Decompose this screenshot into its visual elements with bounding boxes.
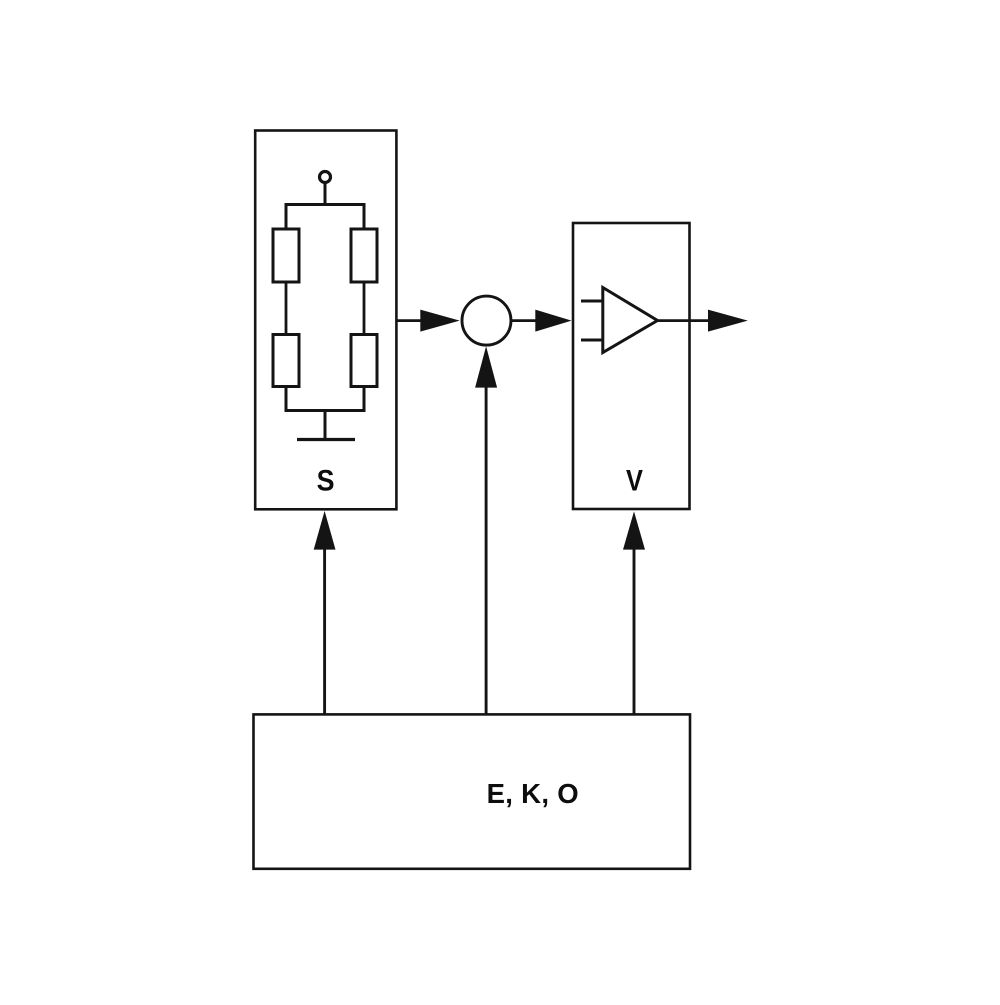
label V xyxy=(626,464,643,497)
resistor R2 xyxy=(351,229,377,282)
signal arrow summing junction to amplifier V xyxy=(512,310,572,332)
sensor block S xyxy=(255,131,396,510)
label S xyxy=(317,464,335,498)
wire terminal stem xyxy=(324,184,327,206)
signal arrow amplifier output xyxy=(658,310,748,332)
wire bridge top rail xyxy=(286,205,364,231)
control arrow E K O to summing junction xyxy=(475,346,497,714)
resistor R4 xyxy=(351,335,377,387)
wire left branch middle xyxy=(285,282,288,335)
amplifier block V xyxy=(573,223,690,509)
summing junction node xyxy=(462,296,511,345)
wire bridge bottom rail xyxy=(286,387,364,411)
wire op-amp input pin 2 xyxy=(581,339,603,342)
wire right branch middle xyxy=(363,282,366,335)
svg-text:E, K, O: E, K, O xyxy=(487,778,579,809)
resistor R3 xyxy=(273,335,299,387)
svg-text:S: S xyxy=(317,464,335,498)
svg-text:V: V xyxy=(626,464,643,497)
control block E, K, O xyxy=(254,714,691,868)
control arrow E K O to V xyxy=(623,511,645,714)
signal arrow S to summing junction xyxy=(396,310,459,332)
ground xyxy=(297,438,355,441)
op-amp U1 xyxy=(603,288,658,353)
control arrow E K O to S xyxy=(314,511,336,715)
wire op-amp input pin 1 xyxy=(581,300,603,303)
wire ground stem xyxy=(324,411,327,439)
resistor R1 xyxy=(273,229,299,282)
bridge terminal xyxy=(320,172,331,183)
